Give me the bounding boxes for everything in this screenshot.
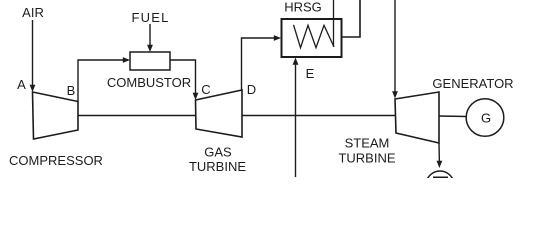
gas turbine xyxy=(196,90,243,137)
wire compressor discharge B up xyxy=(78,60,125,101)
wire steam feed down to steam turbine xyxy=(394,0,396,94)
svg-text:GENERATOR: GENERATOR xyxy=(432,76,513,91)
wire shaft steam turbine to generator xyxy=(439,115,466,118)
arrow exhaust steam into condenser xyxy=(437,161,443,168)
wire combustor outlet to node C xyxy=(170,60,196,95)
wire steam exhaust down to condenser xyxy=(438,143,440,163)
condenser xyxy=(426,171,454,199)
svg-text:D: D xyxy=(247,82,256,97)
svg-text:HRSG: HRSG xyxy=(284,0,322,15)
arrow steam into steam turbine xyxy=(392,91,398,98)
wire shaft compressor to gas turbine xyxy=(78,115,196,117)
wire shaft gas turbine to steam turbine xyxy=(242,115,395,117)
svg-text:TURBINE: TURBINE xyxy=(189,159,246,174)
wire steam out of HRSG right side xyxy=(342,0,361,37)
arrow combustion gas into gas turbine at node C xyxy=(193,93,199,100)
arrow exhaust into HRSG xyxy=(274,35,281,41)
svg-text:B: B xyxy=(67,83,76,98)
wire exhaust from node D up to HRSG xyxy=(242,38,277,90)
generator xyxy=(466,99,504,137)
svg-text:E: E xyxy=(306,66,315,81)
svg-text:G: G xyxy=(481,111,491,126)
HRSG xyxy=(282,19,342,57)
steam turbine xyxy=(395,92,439,143)
arrow fuel into combustor xyxy=(147,45,153,52)
svg-text:COMPRESSOR: COMPRESSOR xyxy=(9,153,103,168)
svg-text:AIR: AIR xyxy=(22,5,44,20)
wire feedwater riser at node E xyxy=(295,63,297,177)
arrow feedwater into HRSG bottom xyxy=(293,58,299,65)
svg-text:GAS: GAS xyxy=(204,145,232,160)
wire coil outlet through HRSG top xyxy=(333,0,335,47)
svg-text:C: C xyxy=(201,82,210,97)
svg-text:COMBUSTOR: COMBUSTOR xyxy=(107,75,191,90)
svg-text:A: A xyxy=(17,77,26,92)
svg-text:FUEL: FUEL xyxy=(131,10,169,25)
condenser water level bar xyxy=(433,177,448,181)
wire fuel line xyxy=(149,24,151,47)
arrow air into combustor xyxy=(123,57,130,63)
svg-text:TURBINE: TURBINE xyxy=(338,150,395,165)
HRSG coil xyxy=(294,25,335,48)
svg-text:STEAM: STEAM xyxy=(345,136,390,151)
wire air inlet line xyxy=(32,20,34,87)
arrow air into compressor at node A xyxy=(30,85,36,92)
compressor xyxy=(33,92,79,139)
combustor xyxy=(130,52,170,70)
